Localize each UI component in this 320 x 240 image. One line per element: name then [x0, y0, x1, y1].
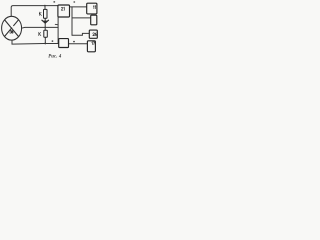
plus mark top right [73, 1, 75, 3]
plus mark top left [53, 1, 55, 3]
junction dot middle [44, 27, 46, 29]
wire bell middle terminal to stem [22, 26, 59, 29]
junction dot bottom [44, 43, 46, 45]
box C [91, 15, 97, 25]
arrowhead down on stem [42, 20, 49, 23]
wire branch to box C [72, 17, 91, 19]
label 11 [93, 6, 95, 9]
resistor R1 [44, 9, 48, 18]
svg-text:Рис. 4: Рис. 4 [48, 54, 62, 59]
wire stem below R2 [44, 37, 46, 43]
box D 26 [89, 30, 97, 38]
wire bottom from bell to box E [12, 40, 59, 44]
box B 11 [87, 3, 97, 14]
tick on wire below box A [55, 23, 58, 26]
wire vertical bus [71, 7, 73, 35]
plus mark bottom right [73, 41, 75, 43]
wire corner to box D [72, 33, 89, 35]
box F 17 [87, 41, 95, 52]
label 21 [61, 7, 64, 10]
box E [59, 39, 69, 48]
white diamond at cross center [11, 25, 14, 28]
label Зв in circle [10, 30, 13, 33]
box A 21 [58, 5, 70, 17]
label 17 [92, 42, 95, 45]
resistor R2 [44, 30, 48, 37]
label k1 [39, 12, 41, 16]
plus mark bottom left [51, 40, 53, 42]
label k2 [39, 32, 41, 36]
bell circle [2, 16, 22, 40]
diagonal cross in circle [5, 20, 19, 37]
wire resistor branch top stem [44, 6, 46, 10]
wire top-left corner down to bell [11, 6, 58, 17]
wire stem between resistors [44, 18, 46, 30]
wire box A bottom-left down to bottom rail [57, 17, 59, 44]
label 26 [93, 33, 97, 36]
wire box A to box B [70, 6, 87, 8]
wire box E to box F [69, 43, 88, 45]
junction dot top [44, 5, 46, 7]
